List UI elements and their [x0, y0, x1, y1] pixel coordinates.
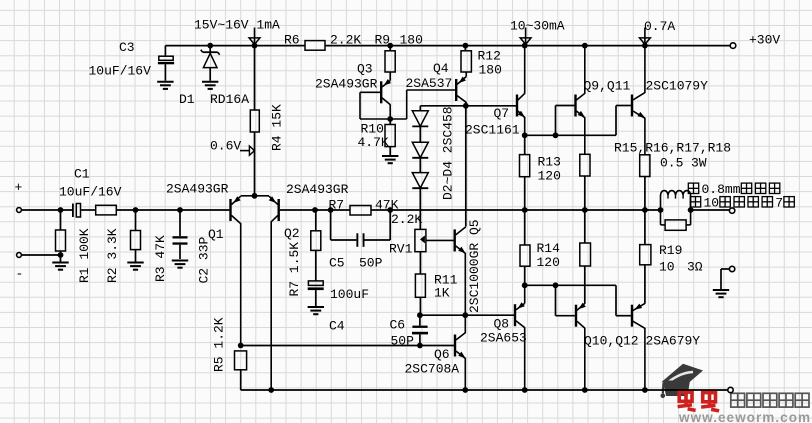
svg-text:10: 10	[659, 260, 675, 275]
wire diode chain top	[420, 105, 466, 107]
wire output rail	[390, 209, 729, 211]
transistor Q2 2SA493GR	[255, 182, 349, 390]
resistor R12 180	[461, 46, 502, 78]
label R15-R18	[614, 141, 731, 171]
node C5 tap	[328, 207, 334, 213]
transistor Q4 2SA537	[390, 61, 466, 119]
resistor R2 3.3K	[96, 205, 230, 283]
resistor R9 180	[375, 33, 423, 73]
svg-text:C5: C5	[329, 256, 345, 271]
resistor R15 0.5	[580, 154, 590, 210]
svg-text:+30V: +30V	[749, 33, 780, 48]
svg-text:4.7K: 4.7K	[358, 135, 389, 150]
svg-text:Q1: Q1	[208, 227, 224, 242]
watermark chongchong red characters	[678, 389, 720, 411]
capacitor C4 100uF	[308, 281, 369, 334]
svg-text:2SC1161: 2SC1161	[465, 123, 520, 138]
resistor R16 0.5	[580, 210, 591, 304]
watermark graduation cap logo	[661, 364, 704, 398]
diode D3	[412, 126, 428, 157]
resistor R11 1K	[415, 252, 457, 316]
transistor Q11 2SC1079Y	[632, 46, 708, 155]
resistor R10 4.7K	[358, 119, 396, 155]
resistor R7 47K	[329, 198, 399, 216]
svg-text:7: 7	[775, 196, 783, 211]
svg-text:2SC1079Y: 2SC1079Y	[646, 79, 709, 94]
svg-text:-: -	[16, 267, 24, 282]
transistor Q12 2SA679Y	[632, 303, 700, 390]
node VAS top junction	[463, 103, 469, 109]
svg-text:10~30mA: 10~30mA	[510, 19, 565, 34]
svg-text:0.7A: 0.7A	[644, 19, 675, 34]
svg-text:C6: C6	[390, 318, 406, 333]
trimmer RV1 2.2K	[389, 229, 426, 256]
node Q2 base junction	[312, 207, 318, 213]
terminal bottom right	[728, 387, 733, 392]
watermark url	[678, 410, 811, 423]
svg-text:R1 100K: R1 100K	[77, 228, 92, 283]
svg-text:Q10,Q12: Q10,Q12	[584, 334, 639, 349]
node A	[133, 207, 139, 213]
svg-text:RV1: RV1	[389, 242, 413, 257]
junctions on output rail	[522, 207, 694, 213]
svg-text:R5 1.2K: R5 1.2K	[211, 317, 226, 372]
junctions on bottom rail	[268, 387, 647, 393]
svg-text:Q9,Q11: Q9,Q11	[584, 79, 631, 94]
transistor Q1 2SA493GR	[166, 182, 255, 346]
svg-text:C4: C4	[329, 319, 345, 334]
svg-text:Q4: Q4	[433, 61, 449, 76]
node B	[177, 207, 183, 213]
terminal speaker plus	[729, 208, 734, 213]
terminal input plus	[15, 180, 73, 212]
ground for C3	[157, 82, 173, 89]
wire top supply rail	[165, 45, 730, 47]
label 2.2K for RV1	[391, 212, 422, 227]
label coil note line2	[690, 196, 794, 211]
svg-text:R15,R16,R17,R18: R15,R16,R17,R18	[614, 141, 731, 156]
resistor R18 0.5	[640, 210, 651, 304]
svg-text:R19: R19	[659, 243, 682, 258]
svg-text:+: +	[15, 180, 23, 195]
svg-text:Q8: Q8	[494, 317, 510, 332]
wire Q7 base	[466, 105, 516, 107]
terminal +30V	[730, 33, 780, 49]
svg-text:Q6: Q6	[434, 347, 450, 362]
transistor Q6 2SC708A	[405, 315, 466, 390]
resistor R19 10ohm	[659, 210, 703, 275]
ground for D1	[202, 82, 218, 89]
current arrow 1mA	[194, 18, 280, 45]
svg-text:2SA537: 2SA537	[406, 76, 453, 91]
transistor Q8 2SA653	[480, 285, 527, 390]
transistor Q3 2SA493GR	[315, 62, 391, 120]
node Q7 emitter junction	[522, 132, 528, 138]
node bias lower junction	[417, 312, 423, 318]
resistor R1 100K	[56, 210, 92, 283]
wire upper bias bus	[525, 106, 631, 139]
resistor R17 0.5	[640, 155, 650, 210]
svg-text:C2 33P: C2 33P	[196, 236, 211, 283]
svg-text:www.eeworm.com: www.eeworm.com	[678, 410, 811, 423]
svg-text:3Ω: 3Ω	[687, 260, 703, 275]
wire lower bias bus	[525, 282, 631, 315]
svg-text:0.5: 0.5	[660, 156, 683, 171]
diode D2	[412, 106, 428, 127]
svg-text:2SA493GR: 2SA493GR	[315, 77, 378, 92]
resistor R7 1.5K	[287, 210, 321, 297]
terminal speaker minus	[721, 266, 735, 289]
current arrow 0.7A	[640, 19, 676, 44]
wire bottom rail	[241, 389, 728, 391]
resistor R5 1.2K	[211, 317, 246, 390]
resistor R6 2.2K	[284, 33, 361, 51]
svg-text:R3 47K: R3 47K	[153, 235, 168, 282]
svg-text:10uF/16V: 10uF/16V	[59, 185, 122, 200]
svg-text:Q2: Q2	[284, 226, 300, 241]
ground for R3	[127, 263, 143, 270]
svg-text:R2 3.3K: R2 3.3K	[105, 228, 120, 283]
svg-text:C3: C3	[119, 40, 135, 55]
svg-text:2.2K: 2.2K	[330, 33, 361, 48]
svg-text:C1: C1	[74, 167, 90, 182]
capacitor C5 50P	[329, 210, 390, 271]
ground for speaker terminal	[713, 290, 729, 297]
svg-text:2SC1000GR Q5: 2SC1000GR Q5	[467, 219, 482, 313]
svg-text:180: 180	[479, 63, 502, 78]
capacitor C2 33P	[173, 210, 212, 284]
svg-text:2SA653: 2SA653	[480, 331, 527, 346]
transistor Q9 2SC1079Y	[576, 46, 631, 155]
transistor Q7 2SC1161	[465, 46, 525, 138]
svg-text:D2~D4 2SC458: D2~D4 2SC458	[440, 106, 455, 200]
zener diode D1 RD16A	[179, 46, 249, 107]
node feedback junction	[387, 207, 393, 213]
svg-text:R4 15K: R4 15K	[269, 104, 284, 151]
svg-text:R9: R9	[375, 33, 391, 48]
svg-text:2SA493GR: 2SA493GR	[286, 182, 349, 197]
svg-text:2SC708A: 2SC708A	[405, 362, 460, 377]
svg-text:R13: R13	[538, 155, 561, 170]
node diff emitter junction	[252, 193, 258, 199]
inductor L output coil	[661, 191, 691, 210]
ground for R1 / minus input	[52, 263, 68, 270]
svg-text:RD16A: RD16A	[210, 92, 249, 107]
svg-text:R12: R12	[478, 49, 501, 64]
ground for R10	[382, 156, 398, 163]
capacitor C1	[59, 167, 122, 218]
resistor R4 15K	[250, 46, 284, 196]
svg-text:2SA679Y: 2SA679Y	[646, 334, 701, 349]
svg-text:15V~16V 1mA: 15V~16V 1mA	[194, 18, 280, 33]
resistor R13 120	[520, 135, 561, 210]
transistor Q10 2SA679Y	[576, 303, 639, 390]
capacitor C3	[89, 40, 175, 81]
transistor Q5 2SC1000GR	[426, 219, 482, 315]
svg-text:3W: 3W	[691, 156, 707, 171]
label coil note line1	[688, 182, 780, 197]
svg-text:Q3: Q3	[357, 62, 373, 77]
svg-text:10uF/16V: 10uF/16V	[89, 64, 152, 79]
capacitor C6 50P	[390, 315, 429, 348]
resistor R3 47K	[131, 210, 168, 282]
svg-text:100uF: 100uF	[330, 287, 369, 302]
svg-text:R14: R14	[537, 241, 561, 256]
node junctions on top rail	[207, 43, 648, 49]
wire Q1 collector to Q6 base	[238, 343, 454, 349]
svg-text:0.6V: 0.6V	[210, 139, 241, 154]
svg-text:R7 1.5K: R7 1.5K	[287, 242, 302, 297]
label D2~D4 2SC458	[440, 106, 455, 200]
ground for C2	[172, 261, 188, 268]
svg-text:Q7: Q7	[494, 106, 510, 121]
current arrow 10~30mA	[510, 19, 565, 45]
watermark site name characters	[731, 393, 809, 407]
wire Q8 base net	[420, 312, 514, 318]
diode D4	[412, 158, 428, 230]
node Q8 emitter junction	[522, 282, 528, 288]
terminal input minus	[16, 252, 64, 281]
svg-text:2SA493GR: 2SA493GR	[166, 182, 229, 197]
svg-text:10: 10	[704, 196, 720, 211]
ground for C4	[308, 307, 324, 314]
svg-text:2.2K: 2.2K	[391, 212, 422, 227]
svg-text:180: 180	[400, 33, 423, 48]
svg-text:50P: 50P	[359, 256, 383, 271]
label 0.6V with arrow	[210, 139, 254, 156]
svg-text:D1: D1	[179, 92, 195, 107]
svg-text:1K: 1K	[434, 286, 450, 301]
resistor R14 120	[520, 210, 560, 285]
node Q3 collector-base junction	[387, 116, 393, 122]
wire input node	[58, 207, 64, 213]
svg-text:120: 120	[538, 169, 561, 184]
wire Q2 base to feedback node	[280, 209, 350, 211]
wire Q4 collector to Q5	[465, 106, 467, 227]
svg-text:R6: R6	[284, 33, 300, 48]
svg-text:120: 120	[537, 255, 560, 270]
